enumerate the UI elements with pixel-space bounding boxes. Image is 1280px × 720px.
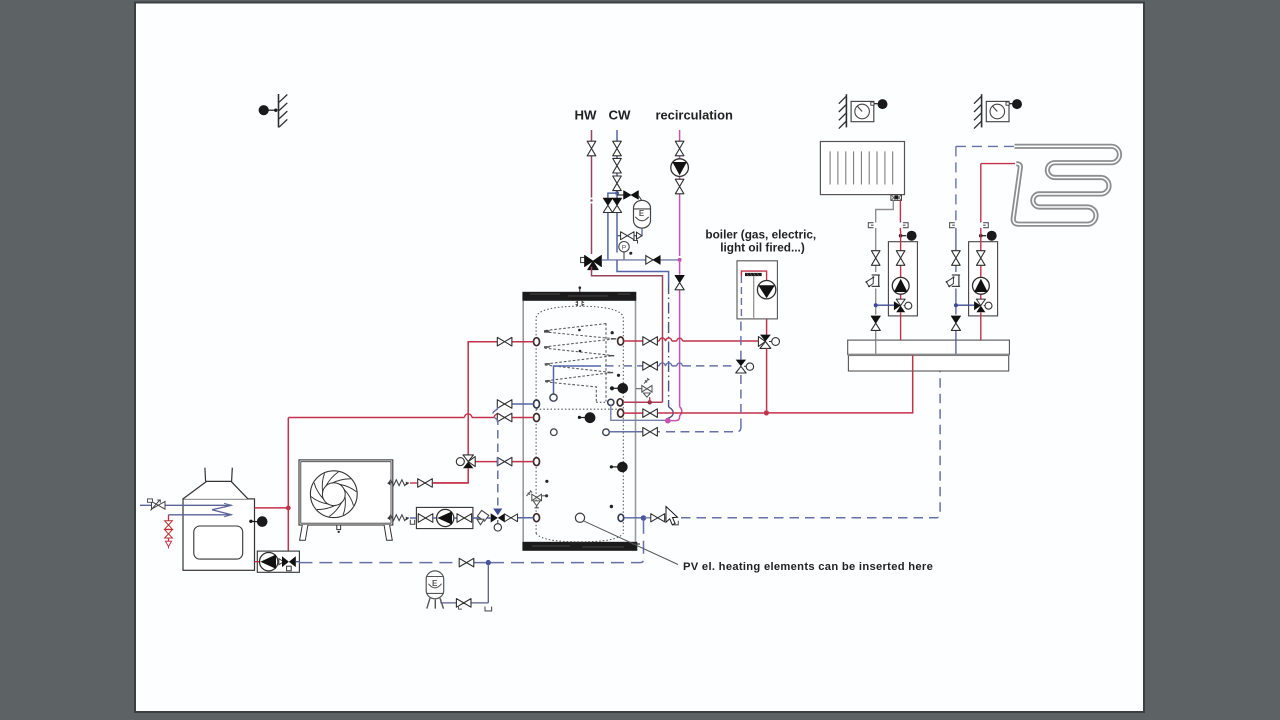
- recirculation non-return valve: [646, 256, 660, 265]
- svg-text:boiler (gas, electric,: boiler (gas, electric,: [705, 228, 816, 242]
- manifold lower bar: [848, 355, 1010, 371]
- CW feed pipe down to tank: [617, 260, 669, 283]
- group1 return valve: [871, 251, 880, 266]
- manifold return dashed pipe: [681, 371, 940, 518]
- vessel connection pipe: [441, 565, 492, 611]
- recirculation inlet ring: [608, 399, 614, 405]
- PV annotation leader: [584, 521, 678, 564]
- pressure gauge P: [619, 242, 633, 260]
- tank nozzles right: [617, 337, 624, 521]
- wood boiler mixing valve: [282, 556, 299, 571]
- group1 return pipe: [875, 251, 877, 355]
- immersion sensor ball lower: [610, 462, 628, 473]
- tank top supply row left: [468, 342, 533, 345]
- radiator: [820, 142, 904, 195]
- heat pump supply flex hose: [387, 480, 468, 486]
- hp group inlet valve: [418, 514, 433, 523]
- immersion sensor ball upper: [610, 383, 628, 394]
- recirculation node on HW line: [678, 258, 682, 262]
- group1 sensor ball: [899, 231, 917, 241]
- tank bottom insulation cap: [522, 542, 640, 551]
- heat pump 3-way valve: [456, 455, 475, 468]
- heat pump return 3-way valve: [491, 513, 505, 531]
- group1 mixing valve: [894, 299, 912, 312]
- HW thermostatic mixing valve: [581, 255, 602, 269]
- heating return valve left: [497, 400, 512, 409]
- vessel drain pipe: [617, 228, 642, 236]
- svg-text:CW: CW: [609, 108, 632, 123]
- group2 isolating valve: [977, 251, 986, 266]
- group1 return node: [874, 303, 894, 307]
- wood boiler sensor ball: [249, 516, 267, 527]
- gas boiler internal pipes: [741, 271, 766, 319]
- heat pump mixing riser: [433, 342, 468, 483]
- DHW safety valve: [636, 378, 652, 397]
- group2 supply pipe: [980, 164, 982, 340]
- supply junction node: [764, 410, 769, 415]
- label CW: [609, 108, 632, 123]
- thermal discharge coil: [169, 503, 232, 517]
- heat pump pump group box: [416, 507, 473, 528]
- tank bottom valve: [504, 514, 517, 522]
- recirculation shutoff valve: [675, 141, 684, 156]
- thermal safety valve: [140, 499, 184, 511]
- wood boiler supply pipe: [255, 418, 291, 556]
- CW riser pipe: [616, 130, 618, 193]
- tank bottom row left: [505, 517, 534, 519]
- boiler supply riser: [765, 319, 766, 410]
- DHW expansion vessel E: [634, 196, 651, 229]
- internal DHW coil dashed: [544, 323, 615, 402]
- main supply row from tank: [624, 412, 764, 414]
- recirculation check valve: [675, 275, 684, 289]
- group1 balancing valve: [865, 275, 880, 287]
- floor heating connection red: [981, 163, 1015, 165]
- main return dashed pipe: [299, 562, 485, 564]
- hp group outlet valve: [457, 514, 472, 523]
- main return valve: [459, 558, 474, 567]
- thermometer pocket bottom: [575, 513, 584, 522]
- radiator supply pipe: [899, 200, 901, 231]
- group2 return node: [954, 303, 974, 307]
- room thermostat1: [851, 99, 887, 122]
- svg-text:E: E: [639, 209, 644, 218]
- check valve left: [603, 198, 612, 212]
- wood supply valve: [497, 413, 512, 422]
- heat pump legs: [300, 525, 393, 540]
- wall bracket top-left: [279, 94, 288, 128]
- group2 sensor ball: [979, 231, 997, 241]
- floor heating serpentine: [1013, 146, 1119, 224]
- supply main to manifold: [769, 355, 913, 413]
- blackened isolating valve to expansion vessel: [617, 191, 638, 200]
- tank nozzles left: [534, 338, 540, 522]
- gas boiler box: [737, 261, 777, 319]
- recirculation balancing valve: [675, 179, 684, 194]
- group1 supply pipe: [900, 231, 902, 340]
- CW branch pipe to twin check valves: [608, 193, 617, 260]
- sensor pocket ring right: [603, 429, 610, 436]
- group2 balancing valve: [946, 275, 961, 287]
- vessel isolating valve: [621, 232, 634, 240]
- heat pump return flex hose: [387, 515, 418, 524]
- dirt filter: [472, 510, 491, 524]
- manifold upper bar: [848, 340, 1010, 355]
- tank drain valve: [651, 514, 679, 525]
- group2 return dashed pipe: [955, 146, 957, 354]
- bottom return row valve: [643, 428, 658, 437]
- group1 pump box: [888, 242, 917, 316]
- heat pump supply valve: [497, 457, 512, 466]
- svg-text:recirculation: recirculation: [656, 108, 733, 123]
- HW shutoff valve: [587, 141, 596, 156]
- radiator return pipe: [876, 200, 894, 250]
- sensor ball on wall: [259, 105, 278, 115]
- heat pump fan: [310, 471, 357, 518]
- tank safety valve connection dot: [545, 494, 548, 497]
- wall bracket thermostat1: [839, 94, 847, 128]
- main return dashed to tank: [491, 521, 644, 563]
- CW strainer valve: [613, 176, 622, 191]
- boiler return riser dashed: [740, 319, 742, 428]
- vessel drain cock: [633, 232, 642, 243]
- heating return injection pipe inside tank: [554, 366, 602, 394]
- tank safety valve bottom left: [527, 490, 546, 507]
- group2 pump: [973, 277, 990, 294]
- group1 pump: [892, 277, 909, 294]
- group2 check valve: [951, 316, 960, 330]
- stratifier ring: [550, 394, 557, 401]
- immersion sensor ball middle: [578, 412, 596, 423]
- union marks group1: [868, 223, 908, 228]
- HW riser pipe: [590, 130, 592, 254]
- heat pump outdoor unit: [299, 460, 393, 525]
- supply row to HW mixer: [624, 397, 663, 404]
- tank zone divider dashed: [536, 402, 623, 409]
- recirculation return node: [665, 418, 671, 424]
- CW check valve: [613, 158, 622, 173]
- discharge drain pipe: [165, 515, 173, 549]
- room thermostat2: [986, 99, 1022, 122]
- floor heating connection dashed: [956, 145, 1014, 147]
- PV annotation text: [683, 561, 933, 573]
- recirculation riser pipe: [679, 130, 681, 256]
- sensor pocket ring left: [551, 429, 558, 436]
- text boiler label: [705, 228, 816, 255]
- svg-text:E: E: [432, 579, 438, 588]
- coil end tips: [544, 331, 616, 381]
- main return node: [486, 560, 491, 565]
- tank top insulation cap: [522, 292, 636, 301]
- boiler return row valve: [643, 362, 658, 371]
- mixed HW outlet pipe: [602, 259, 680, 261]
- group2 return valve: [952, 251, 961, 266]
- wood boiler door: [194, 526, 243, 559]
- group1 isolating valve: [896, 251, 905, 266]
- group2 mixing valve: [974, 299, 992, 312]
- svg-text:P: P: [622, 245, 627, 252]
- heat pump supply valve: [418, 479, 433, 488]
- svg-text:HW: HW: [575, 108, 598, 123]
- CW junction node: [615, 191, 619, 195]
- recirculation pump: [671, 159, 689, 177]
- wood boiler loading pump: [255, 553, 284, 571]
- tank bottom connection right: [624, 515, 667, 521]
- hp circulating pump: [433, 509, 458, 526]
- top supply valve left: [497, 337, 512, 346]
- group2 union marks: [950, 223, 989, 228]
- check valve right: [612, 198, 621, 212]
- svg-text:PV el. heating elements can be: PV el. heating elements can be inserted …: [683, 561, 933, 573]
- gas boiler burner bar: [745, 273, 762, 318]
- tank sensor dots: [545, 329, 620, 508]
- HW pipe down from mixer: [592, 267, 663, 403]
- tank vent fitting: [576, 286, 585, 306]
- wood boiler supply row: [288, 414, 533, 418]
- tank supply top row right: [624, 338, 759, 341]
- pipes crossing manifold bars: [876, 340, 956, 371]
- boiler return zone valve: [736, 360, 754, 373]
- recirculation drop pipe: [668, 262, 682, 421]
- top row isolating valve: [643, 337, 658, 346]
- boiler 3-way mixing valve: [758, 335, 779, 349]
- group2 pump box: [969, 242, 998, 316]
- return drop pipe dashed: [493, 407, 498, 506]
- system expansion vessel: [426, 571, 444, 609]
- svg-text:light oil fired...): light oil fired...): [720, 241, 805, 255]
- label recirculation: [656, 108, 733, 123]
- mouse cursor: [666, 507, 678, 525]
- radiator valve set: [891, 195, 902, 201]
- recirculation return pipe into tank: [611, 406, 665, 421]
- label HW: [575, 108, 598, 123]
- heating return row left: [498, 404, 534, 407]
- tank bottom return row dashed: [609, 428, 741, 432]
- heat pump supply row: [475, 461, 533, 463]
- CW shutoff valve: [613, 141, 622, 156]
- return check valve into 3-way: [493, 509, 502, 516]
- group1 check valve: [871, 316, 880, 330]
- main supply row valve: [643, 409, 658, 418]
- buffer tank outer shell: [523, 301, 635, 542]
- boiler return row dashed: [605, 363, 735, 366]
- gas boiler pump: [757, 281, 775, 299]
- wood boiler body: [183, 468, 255, 571]
- vessel isolating valve: [456, 599, 471, 609]
- wood boiler pump unit box: [257, 551, 299, 572]
- wall bracket thermostat2: [974, 94, 982, 128]
- cold feed drop pipe dash-dot: [668, 283, 673, 421]
- tank inner vessel dashed: [536, 301, 623, 542]
